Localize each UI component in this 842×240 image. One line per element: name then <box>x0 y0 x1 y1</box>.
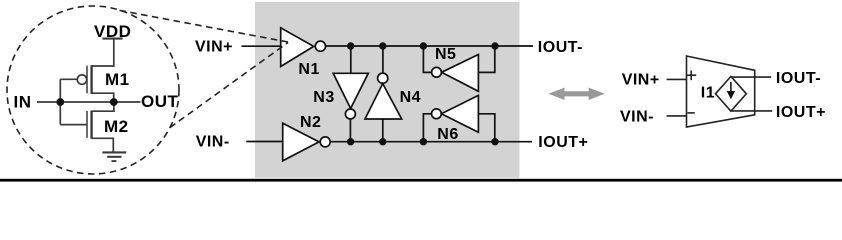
svg-text:IOUT+: IOUT+ <box>776 104 826 121</box>
svg-text:I1: I1 <box>701 85 715 102</box>
svg-text:IN: IN <box>14 93 32 112</box>
svg-text:N6: N6 <box>437 126 458 143</box>
svg-text:VIN-: VIN- <box>620 108 654 125</box>
svg-text:M2: M2 <box>104 117 129 136</box>
svg-text:VIN+: VIN+ <box>195 39 233 56</box>
svg-text:N2: N2 <box>300 114 321 131</box>
svg-text:IOUT+: IOUT+ <box>538 134 588 151</box>
svg-text:IOUT-: IOUT- <box>538 39 583 56</box>
svg-text:M1: M1 <box>105 70 130 89</box>
svg-text:VIN-: VIN- <box>196 133 230 150</box>
svg-text:N5: N5 <box>435 46 456 63</box>
svg-text:N3: N3 <box>313 89 334 106</box>
svg-text:IOUT-: IOUT- <box>776 70 821 87</box>
svg-text:N1: N1 <box>298 61 319 78</box>
svg-text:VIN+: VIN+ <box>622 72 660 89</box>
svg-text:N4: N4 <box>400 89 421 106</box>
svg-text:VDD: VDD <box>94 22 131 41</box>
svg-text:OUT: OUT <box>141 92 179 111</box>
